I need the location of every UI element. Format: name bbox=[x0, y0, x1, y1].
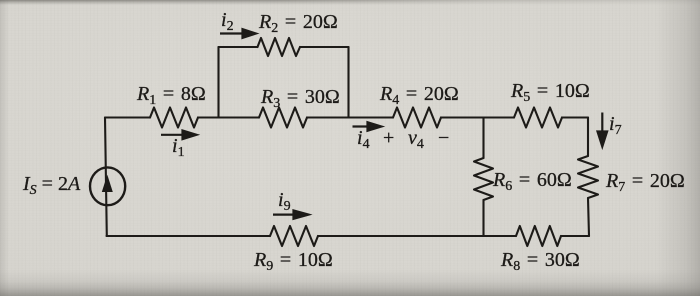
wire: top wire right of R2 bbox=[300, 46, 349, 48]
wire: main horizontal left segment bbox=[105, 116, 150, 118]
current source IS circle bbox=[90, 167, 125, 205]
svg-text:i7: i7 bbox=[609, 113, 622, 138]
arrow i2 bbox=[220, 29, 256, 38]
wire: main horizontal R3 to R4 bbox=[307, 116, 393, 118]
svg-text:−: − bbox=[438, 127, 449, 149]
svg-text:R1 = 8Ω: R1 = 8Ω bbox=[136, 83, 206, 108]
svg-text:R3 = 30Ω: R3 = 30Ω bbox=[260, 86, 340, 111]
wire: R2 branch right vertical bbox=[347, 47, 349, 118]
wire: main horizontal R4 to R5 bbox=[441, 116, 514, 118]
wire: left vertical through source bbox=[105, 118, 107, 237]
wire: R7 branch lower bbox=[588, 198, 589, 236]
resistor R2 bbox=[258, 38, 301, 56]
wire: R7 branch upper bbox=[587, 118, 589, 157]
resistor R9 bbox=[270, 226, 318, 246]
current source IS arrow head bbox=[102, 175, 113, 192]
arrow i7 bbox=[598, 113, 608, 147]
svg-text:R7 = 20Ω: R7 = 20Ω bbox=[605, 170, 685, 195]
svg-text:R9 = 10Ω: R9 = 10Ω bbox=[253, 249, 333, 274]
wire: main horizontal R5 to top-right corner bbox=[562, 116, 588, 118]
svg-text:R8 = 30Ω: R8 = 30Ω bbox=[500, 249, 580, 274]
svg-text:R4 = 20Ω: R4 = 20Ω bbox=[379, 83, 459, 108]
wire: main horizontal R1 to R3 bbox=[198, 116, 259, 118]
wire: top wire left of R2 bbox=[219, 46, 258, 48]
resistor R6 bbox=[474, 158, 493, 200]
wire: R6 branch lower bbox=[482, 200, 484, 236]
resistor R5 bbox=[514, 108, 562, 128]
resistor R3 bbox=[259, 108, 307, 128]
wire: R6 branch upper bbox=[482, 118, 484, 159]
arrow i9 bbox=[273, 210, 309, 218]
svg-text:R6 = 60Ω: R6 = 60Ω bbox=[492, 169, 572, 194]
svg-text:R2 = 20Ω: R2 = 20Ω bbox=[258, 11, 338, 36]
resistor R7 bbox=[578, 156, 598, 198]
svg-text:i9: i9 bbox=[278, 189, 291, 214]
arrow i4 bbox=[353, 122, 382, 131]
svg-text:i2: i2 bbox=[221, 9, 234, 34]
resistor R8 bbox=[516, 226, 561, 246]
svg-text:v4: v4 bbox=[408, 127, 424, 152]
resistor R1 bbox=[150, 108, 198, 128]
svg-text:+: + bbox=[383, 127, 394, 149]
wire: bottom wire left of R9 bbox=[107, 235, 271, 237]
wire: bottom wire R9 to R8 bbox=[318, 235, 516, 237]
wire: bottom wire right of R8 bbox=[561, 235, 589, 237]
arrow i1 bbox=[161, 131, 197, 140]
wire: R2 branch left vertical bbox=[217, 47, 219, 118]
svg-text:R5 = 10Ω: R5 = 10Ω bbox=[510, 80, 590, 105]
resistor R4 bbox=[393, 108, 441, 128]
svg-text:IS = 2A: IS = 2A bbox=[22, 173, 81, 198]
